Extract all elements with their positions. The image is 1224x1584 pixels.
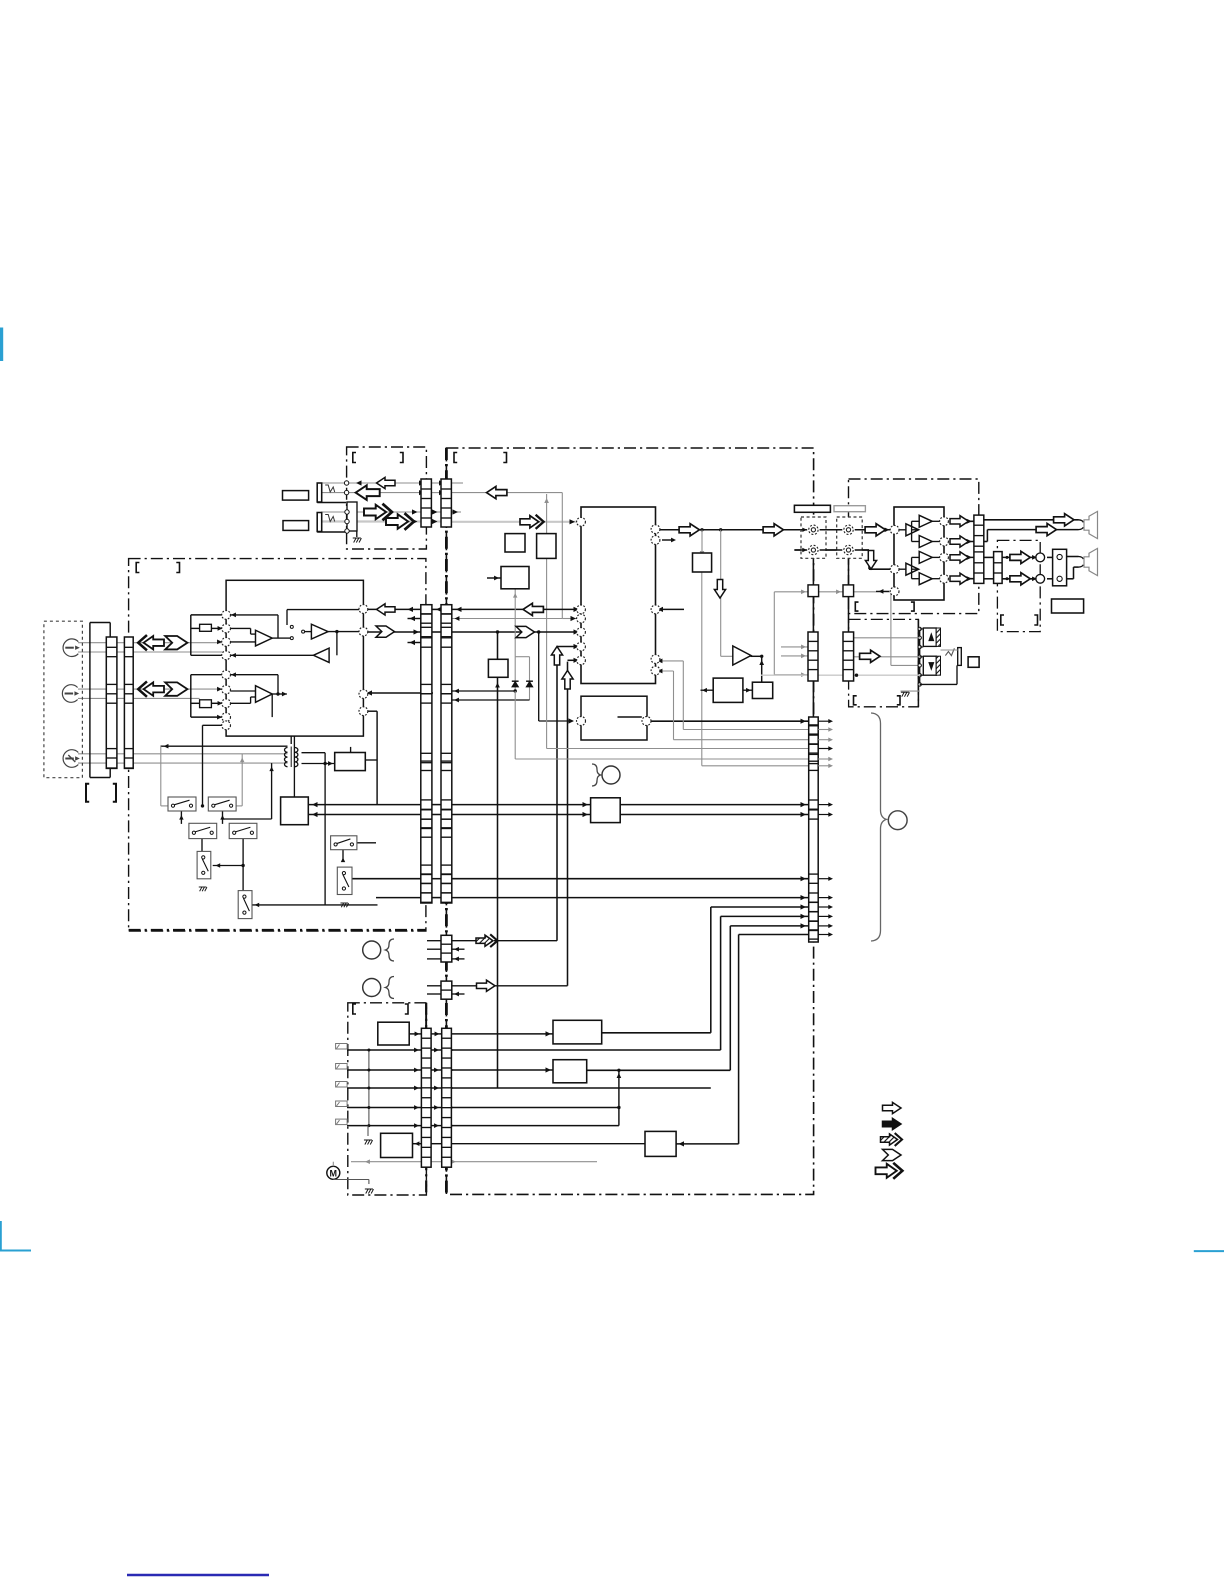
svg-text:M: M [330,1169,338,1179]
